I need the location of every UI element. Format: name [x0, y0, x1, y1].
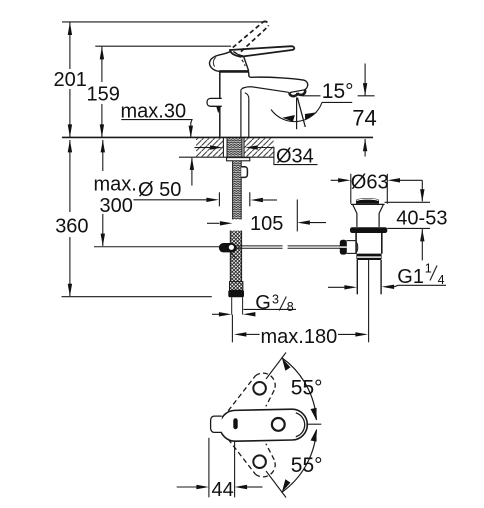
- aerator: [289, 88, 306, 97]
- water stream vertical reference: [296, 98, 298, 130]
- rod guide tab on shank: [241, 167, 247, 178]
- water stream 15deg line: [297, 98, 305, 128]
- svg-text:40-53: 40-53: [396, 208, 447, 230]
- drain flange rim: [351, 203, 385, 205]
- ring upper: [253, 382, 266, 395]
- angle arc 15deg: [271, 102, 322, 121]
- arc arrowhead left: [282, 115, 295, 122]
- horizontal tick right: [306, 423, 321, 425]
- svg-text:Ø34: Ø34: [276, 145, 314, 167]
- dimension 201: [54, 22, 87, 137]
- dimension 159: [87, 47, 120, 138]
- svg-text:4: 4: [438, 273, 445, 287]
- countertop underside line: [179, 156, 274, 158]
- top view inner right arc: [296, 413, 305, 437]
- faucet hub joint line: [219, 70, 249, 73]
- angle arc upper 55: [282, 358, 317, 421]
- faucet body left wall: [219, 71, 221, 137]
- counter hole edge right: [243, 137, 245, 157]
- pop-up rod horizontal: [94, 246, 340, 248]
- hub inner curve: [213, 58, 215, 67]
- dimension 40-53: [396, 180, 447, 260]
- svg-text:15°: 15°: [322, 80, 354, 103]
- hose end tube: [232, 297, 243, 314]
- dimension D50: [133, 179, 277, 206]
- dimension 360: [55, 140, 212, 297]
- radial line lower 55: [266, 471, 286, 498]
- svg-text:55°: 55°: [291, 454, 323, 477]
- extension line flange top: [385, 201, 430, 203]
- rod ball joint: [219, 243, 237, 258]
- svg-text:105: 105: [250, 213, 283, 235]
- counter hole edge left: [222, 137, 224, 157]
- mounting washer: [227, 158, 250, 161]
- drain plug cap: [356, 198, 379, 204]
- dimension G3/8: [212, 292, 296, 317]
- svg-text:55°: 55°: [291, 376, 323, 399]
- top view outer capsule: [219, 409, 307, 442]
- dimension 44: [177, 438, 263, 501]
- dimension D63: [331, 171, 423, 204]
- pop-up rod knob (side view): [207, 98, 222, 113]
- countertop section hatch left: [196, 138, 223, 156]
- drain funnel neck: [353, 204, 384, 227]
- threaded shank: [233, 161, 242, 220]
- countertop top line: [62, 136, 373, 138]
- body inner contour B: [245, 93, 249, 99]
- svg-text:300: 300: [100, 195, 133, 217]
- dashed lever position lower: [228, 439, 275, 477]
- drain lock nut: [356, 254, 381, 260]
- faucet hub outline: [210, 51, 232, 71]
- top view cartridge ring: [272, 418, 285, 431]
- hose crimp: [230, 282, 243, 291]
- drain side port: [346, 241, 356, 254]
- spout white mask: [242, 73, 307, 93]
- drain seal flange: [350, 227, 387, 233]
- ring lower: [253, 455, 266, 468]
- drain tailpipe: [357, 260, 381, 342]
- lever left fold: [233, 52, 243, 56]
- svg-text:74: 74: [352, 106, 376, 131]
- svg-text:G: G: [255, 292, 271, 314]
- hub right edge: [244, 56, 249, 71]
- dashed lever position upper: [228, 373, 275, 411]
- top view pop-up knob: [211, 416, 222, 432]
- braided hose: [230, 231, 241, 282]
- extension line lever height 159: [95, 45, 231, 47]
- svg-text:3: 3: [272, 292, 279, 306]
- svg-text:8: 8: [287, 300, 294, 314]
- arc arrowhead right: [305, 112, 317, 120]
- dimension 74: [352, 64, 376, 157]
- svg-text:1: 1: [425, 262, 432, 276]
- dimension 105: [207, 200, 326, 235]
- faucet spout underside: [242, 87, 304, 93]
- svg-text:Ø 50: Ø 50: [138, 179, 181, 201]
- svg-text:Ø63: Ø63: [351, 171, 389, 193]
- svg-text:max.: max.: [94, 174, 137, 196]
- top view pivot slot: [233, 418, 237, 429]
- dimension max.30: [121, 101, 195, 186]
- dimension max.300: [94, 140, 137, 246]
- dimension max.180: [234, 326, 368, 348]
- extension line top (lever max height): [62, 21, 267, 23]
- extension line seal top: [387, 227, 430, 229]
- dashed raised lever: [233, 21, 269, 66]
- dimension D34: [195, 145, 318, 167]
- angle arc lower 55: [282, 430, 317, 493]
- drain body: [356, 233, 382, 254]
- shank through counter: [227, 138, 242, 158]
- hose nut G3/8: [228, 290, 244, 297]
- faucet spout top: [249, 71, 308, 89]
- svg-text:max.180: max.180: [261, 326, 338, 348]
- svg-text:G1: G1: [397, 266, 424, 288]
- dimension G1 1/4: [328, 262, 446, 290]
- label 15deg: [302, 80, 354, 103]
- svg-text:44: 44: [212, 479, 234, 501]
- drain rod knob: [340, 240, 347, 255]
- svg-text:360: 360: [55, 215, 88, 237]
- hose tube extension line: [231, 315, 233, 343]
- svg-text:159: 159: [87, 83, 120, 105]
- countertop section hatch right: [244, 138, 274, 156]
- solid lever handle: [230, 46, 294, 56]
- radial line upper 55: [266, 353, 286, 380]
- svg-text:201: 201: [54, 69, 87, 91]
- body inner contour A: [241, 87, 246, 89]
